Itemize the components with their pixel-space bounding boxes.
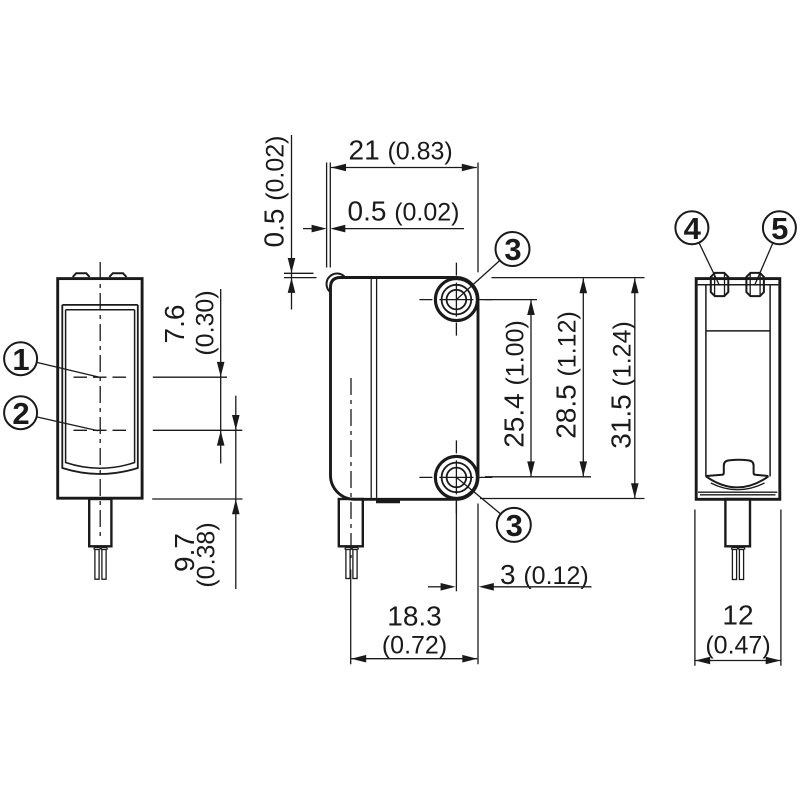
extension line body bottom right	[480, 498, 645, 500]
svg-text:7.6: 7.6	[159, 305, 190, 344]
dimension 9.7 arrow down	[232, 415, 240, 430]
right view wire crimp right	[738, 548, 745, 550]
thick mark on bottom edge	[376, 499, 400, 504]
left view wire crimp left	[94, 548, 101, 550]
right view inner horizontal line	[706, 330, 770, 332]
dimension 28.5 (1.12): dimension line	[582, 278, 584, 476]
callout circle 3 bottom	[497, 508, 531, 543]
dimension 31.5 arrow up	[631, 278, 639, 293]
dimension 25.4 arrow up	[527, 300, 535, 315]
dimension 31.5 arrow down	[631, 483, 639, 498]
right view body outline	[696, 279, 780, 500]
dimension 7.6 arrow up	[217, 431, 225, 446]
dimension 7.6 (0.30): dimension line	[220, 289, 222, 464]
callout circle 5	[763, 211, 796, 246]
right view clip 5	[746, 273, 764, 296]
right view second top line	[698, 284, 779, 286]
mounting hole bottom crosshair	[419, 440, 492, 513]
svg-text:0.5 (0.02): 0.5 (0.02)	[259, 135, 290, 247]
right view wire left	[732, 550, 736, 580]
svg-text:(0.38): (0.38)	[193, 522, 221, 587]
left view wire left	[95, 550, 99, 580]
svg-text:31.5 (1.24): 31.5 (1.24)	[606, 321, 637, 449]
svg-text:(0.47): (0.47)	[705, 632, 770, 660]
middle view wire left	[346, 550, 350, 579]
svg-text:18.3: 18.3	[387, 601, 442, 632]
svg-text:3 (0.12): 3 (0.12)	[500, 559, 589, 590]
svg-text:(0.72): (0.72)	[382, 632, 447, 660]
dimension 0.5 (0.02) vertical: extension line at body top	[284, 277, 317, 279]
dimension 3 (0.12): extension line hole center vertical	[455, 502, 457, 592]
inner vertical line 1	[370, 279, 372, 498]
leader line from callout 4 to clip	[699, 243, 720, 286]
callout circle 1	[4, 342, 37, 377]
left view optical axis 1 (dashed)	[74, 376, 130, 378]
dimension 25.4 arrow down	[527, 461, 535, 476]
dimension 18.3 arrow right	[462, 655, 477, 663]
dimension 28.5 arrow down	[580, 461, 588, 476]
dimension 21 (0.83): left extension line	[326, 163, 328, 268]
mounting hole bottom inner circle	[447, 468, 467, 488]
dimension 9.7 (0.38): dimension line	[235, 396, 237, 589]
right view lens bowl arc 2	[711, 483, 765, 490]
dimension 18.3 (0.72): left extension line (cable axis)	[350, 570, 352, 665]
mounting hole top inner circle	[447, 290, 467, 310]
right view clip 4	[711, 273, 729, 296]
left view wire right	[102, 550, 106, 580]
inner vertical line 2	[376, 279, 378, 498]
dimension 9.7 arrow up	[232, 499, 240, 514]
dimension 0.5 vertical arrow down	[288, 258, 296, 273]
dimension 31.5 (1.24): dimension line	[634, 278, 636, 498]
leader line from callout 3 top to hole	[456, 260, 500, 299]
left view mounting tab left	[73, 273, 90, 277]
left view window frame outer	[62, 305, 138, 474]
dimension 28.5 arrow up	[580, 278, 588, 293]
dimension 0.5 (0.02) vertical: extension line at bump top	[284, 272, 314, 274]
leader line from callout 1 to optical axis 1	[37, 362, 100, 377]
dimension 21 arrow left	[331, 164, 346, 172]
right view inner wall right	[769, 285, 771, 477]
svg-text:(0.30): (0.30)	[192, 290, 220, 355]
middle view wire right	[353, 550, 357, 579]
left view wire crimp right	[101, 548, 108, 550]
middle view cable gland	[339, 499, 363, 546]
extension line top right (0.5 offset plane)	[492, 277, 645, 279]
left view cable gland	[89, 499, 111, 546]
dimension 9.7 (0.38): extension line at body bottom	[152, 498, 242, 500]
dimension 18.3 (0.72): dimension line	[351, 658, 477, 660]
dimension 3 (0.12): dimension line with outside arrow	[493, 586, 592, 588]
callout circle 3 top	[496, 232, 530, 267]
extension line bottom hole center	[485, 476, 591, 478]
svg-text:5: 5	[771, 211, 788, 246]
svg-text:3: 3	[504, 232, 521, 267]
dimension 21 (0.83): left extension line 2 (body edge)	[329, 163, 331, 268]
svg-text:12: 12	[722, 600, 753, 631]
leader line from callout 5 to clip	[755, 243, 773, 286]
dimension 0.5 (0.02) vertical: dimension line	[291, 135, 293, 310]
right view bottom thin line	[698, 491, 777, 493]
dimension 12 (0.47): left extension line	[694, 510, 696, 666]
svg-text:0.5 (0.02): 0.5 (0.02)	[348, 196, 460, 227]
svg-text:25.4 (1.00): 25.4 (1.00)	[499, 320, 530, 448]
middle view wire crimp right	[352, 548, 359, 550]
dimension 3 (0.12): left outside arrow	[428, 586, 442, 588]
dimension 12 arrow right	[766, 657, 781, 665]
left view mounting tab right	[109, 273, 126, 277]
svg-text:1: 1	[12, 342, 29, 377]
dimension 7.6 (0.30): extension line at axis 2	[153, 429, 243, 431]
dimension 3 (0.12): extension line body right vertical	[477, 504, 479, 665]
callout circle 2	[4, 396, 37, 431]
leader line from callout 2 to optical axis 2	[37, 417, 98, 431]
mounting hole top crosshair	[419, 263, 492, 336]
right view lens holder hat	[706, 460, 768, 476]
mounting hole top middle circle	[442, 285, 472, 315]
svg-text:28.5 (1.12): 28.5 (1.12)	[551, 311, 582, 439]
dimension 12 (0.47): dimension line	[695, 660, 781, 662]
dimension 0.5 (0.02) horizontal: outside arrow left	[303, 228, 313, 230]
extension line top hole center	[485, 299, 537, 301]
right view bottom thin line 2	[700, 494, 776, 496]
dimension 7.6 arrow down	[217, 362, 225, 377]
right view inner wall left	[705, 285, 707, 477]
mounting hole boss top	[435, 279, 477, 321]
middle view wire crimp left	[345, 548, 352, 550]
dimension 21 arrow right	[462, 164, 477, 172]
dimension 0.5 (0.02) horizontal: dimension line with outside arrow	[344, 228, 464, 230]
dimension 0.5 vertical arrow up	[288, 278, 296, 293]
middle view body outline	[331, 278, 479, 500]
right view wire crimp left	[731, 548, 738, 550]
dimension 12 arrow left	[695, 657, 710, 665]
right view cable gland	[725, 499, 750, 546]
left view window frame inner	[66, 310, 135, 468]
lens bump at top-left corner	[327, 274, 346, 293]
mounting hole boss bottom	[435, 456, 477, 498]
middle view vertical cable centerline	[350, 378, 352, 558]
dimension 25.4 (1.00): dimension line	[530, 300, 532, 476]
dimension 18.3 arrow left	[351, 655, 366, 663]
svg-text:4: 4	[684, 211, 702, 246]
right view lens bowl arc 1	[706, 476, 769, 487]
callout circle 4	[675, 211, 708, 246]
left view optical axis 2 (dashed)	[74, 429, 130, 431]
svg-text:2: 2	[12, 396, 29, 431]
dimension 7.6 (0.30): extension line at axis 1	[153, 376, 227, 378]
svg-text:21 (0.83): 21 (0.83)	[349, 135, 453, 166]
mounting hole bottom middle circle	[442, 463, 472, 493]
left view vertical centerline	[99, 262, 101, 540]
dimension 21 (0.83): right extension line	[477, 163, 479, 273]
dimension 21 (0.83): dimension line	[331, 167, 477, 169]
svg-text:3: 3	[506, 508, 523, 543]
leader line from callout 3 bottom to hole	[456, 477, 500, 514]
left view body outline	[58, 279, 142, 499]
dimension 12 (0.47): right extension line	[780, 510, 782, 666]
right view wire right	[739, 550, 743, 580]
